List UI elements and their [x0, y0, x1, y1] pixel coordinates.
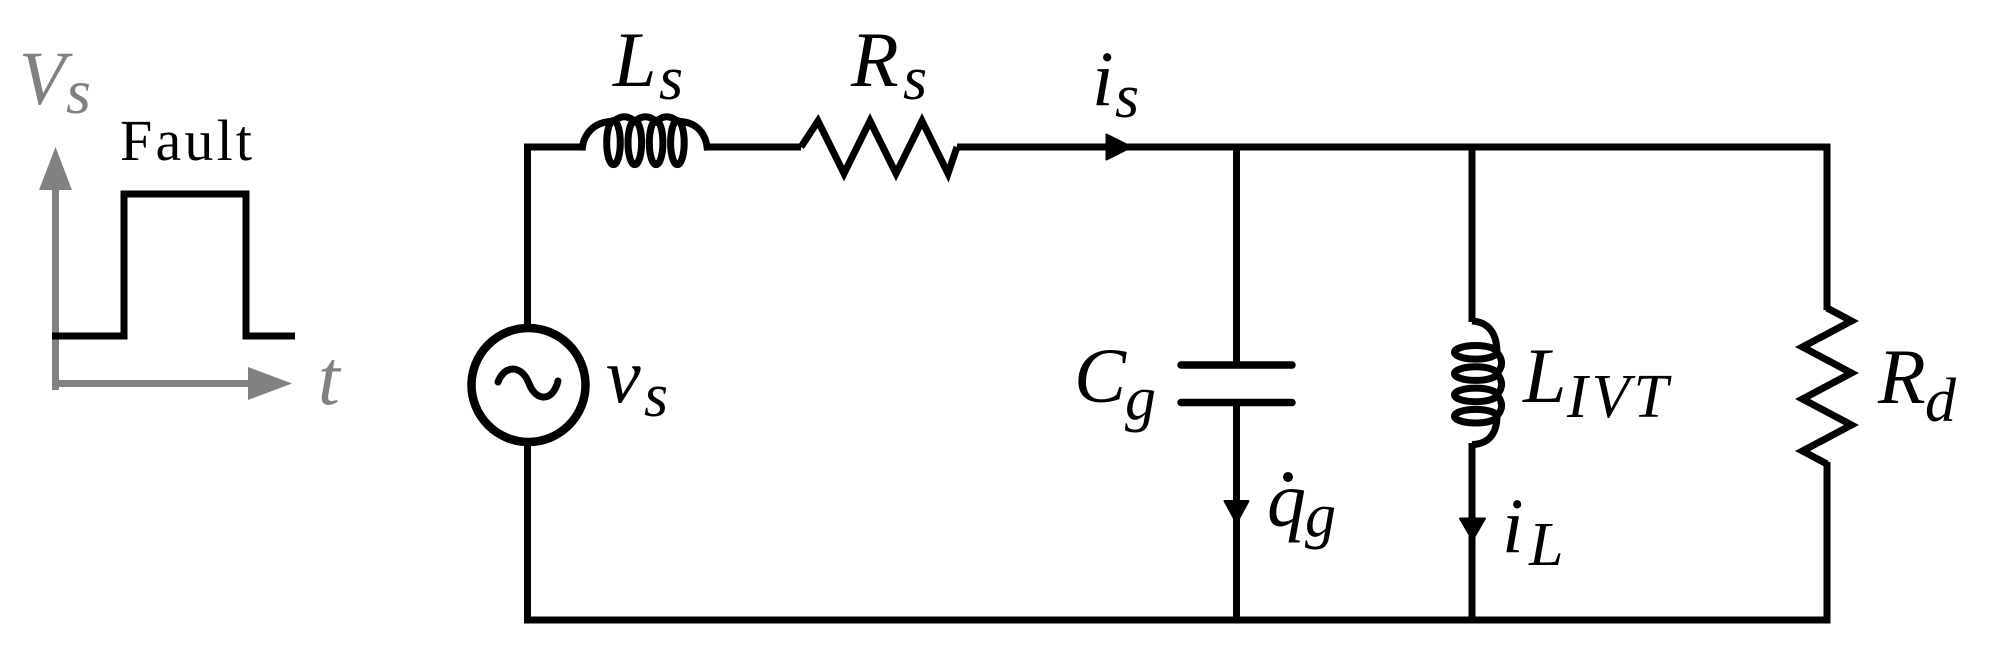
svg-text:d: d — [1925, 367, 1957, 435]
source vs — [472, 328, 586, 442]
svg-text:L: L — [1522, 332, 1566, 419]
svg-text:L: L — [612, 16, 656, 103]
arrow iL — [1460, 519, 1485, 541]
svg-text:C: C — [1074, 332, 1127, 419]
svg-text:i: i — [1502, 482, 1524, 569]
svg-text:g: g — [1305, 482, 1336, 550]
label qg dot — [1283, 472, 1293, 482]
svg-text:s: s — [66, 56, 91, 127]
resistor Rd — [1803, 308, 1852, 464]
svg-text:R: R — [850, 16, 899, 103]
svg-text:t: t — [318, 334, 342, 421]
svg-text:q: q — [1267, 456, 1306, 543]
wire capacitor branch — [1233, 147, 1240, 620]
arrow is — [1107, 135, 1132, 160]
svg-text:s: s — [644, 362, 668, 430]
inset V axis — [39, 147, 292, 400]
wire left — [524, 144, 531, 621]
wire right — [1824, 144, 1831, 621]
svg-text:i: i — [1092, 35, 1114, 122]
wire inductor branch — [1469, 147, 1476, 620]
wire bottom — [524, 617, 1831, 624]
inset t axis — [53, 380, 252, 387]
capacitor Cg plates — [1181, 365, 1292, 403]
svg-text:s: s — [903, 45, 927, 113]
svg-text:s: s — [659, 45, 683, 113]
svg-text:V: V — [19, 37, 73, 121]
fault pulse — [52, 194, 295, 336]
inductor Ls — [582, 117, 708, 165]
svg-text:R: R — [1877, 333, 1926, 420]
arrow qg — [1225, 501, 1249, 523]
source vs sine symbol — [498, 369, 558, 397]
svg-text:v: v — [606, 332, 641, 419]
svg-text:s: s — [1115, 63, 1139, 131]
svg-text:L: L — [1528, 511, 1563, 579]
svg-text:Fault: Fault — [120, 108, 255, 173]
wire top — [524, 144, 1831, 621]
resistor Rs — [801, 121, 957, 174]
svg-text:IVT: IVT — [1566, 363, 1673, 431]
inductor LIVT — [1455, 321, 1502, 445]
svg-text:g: g — [1125, 365, 1156, 433]
